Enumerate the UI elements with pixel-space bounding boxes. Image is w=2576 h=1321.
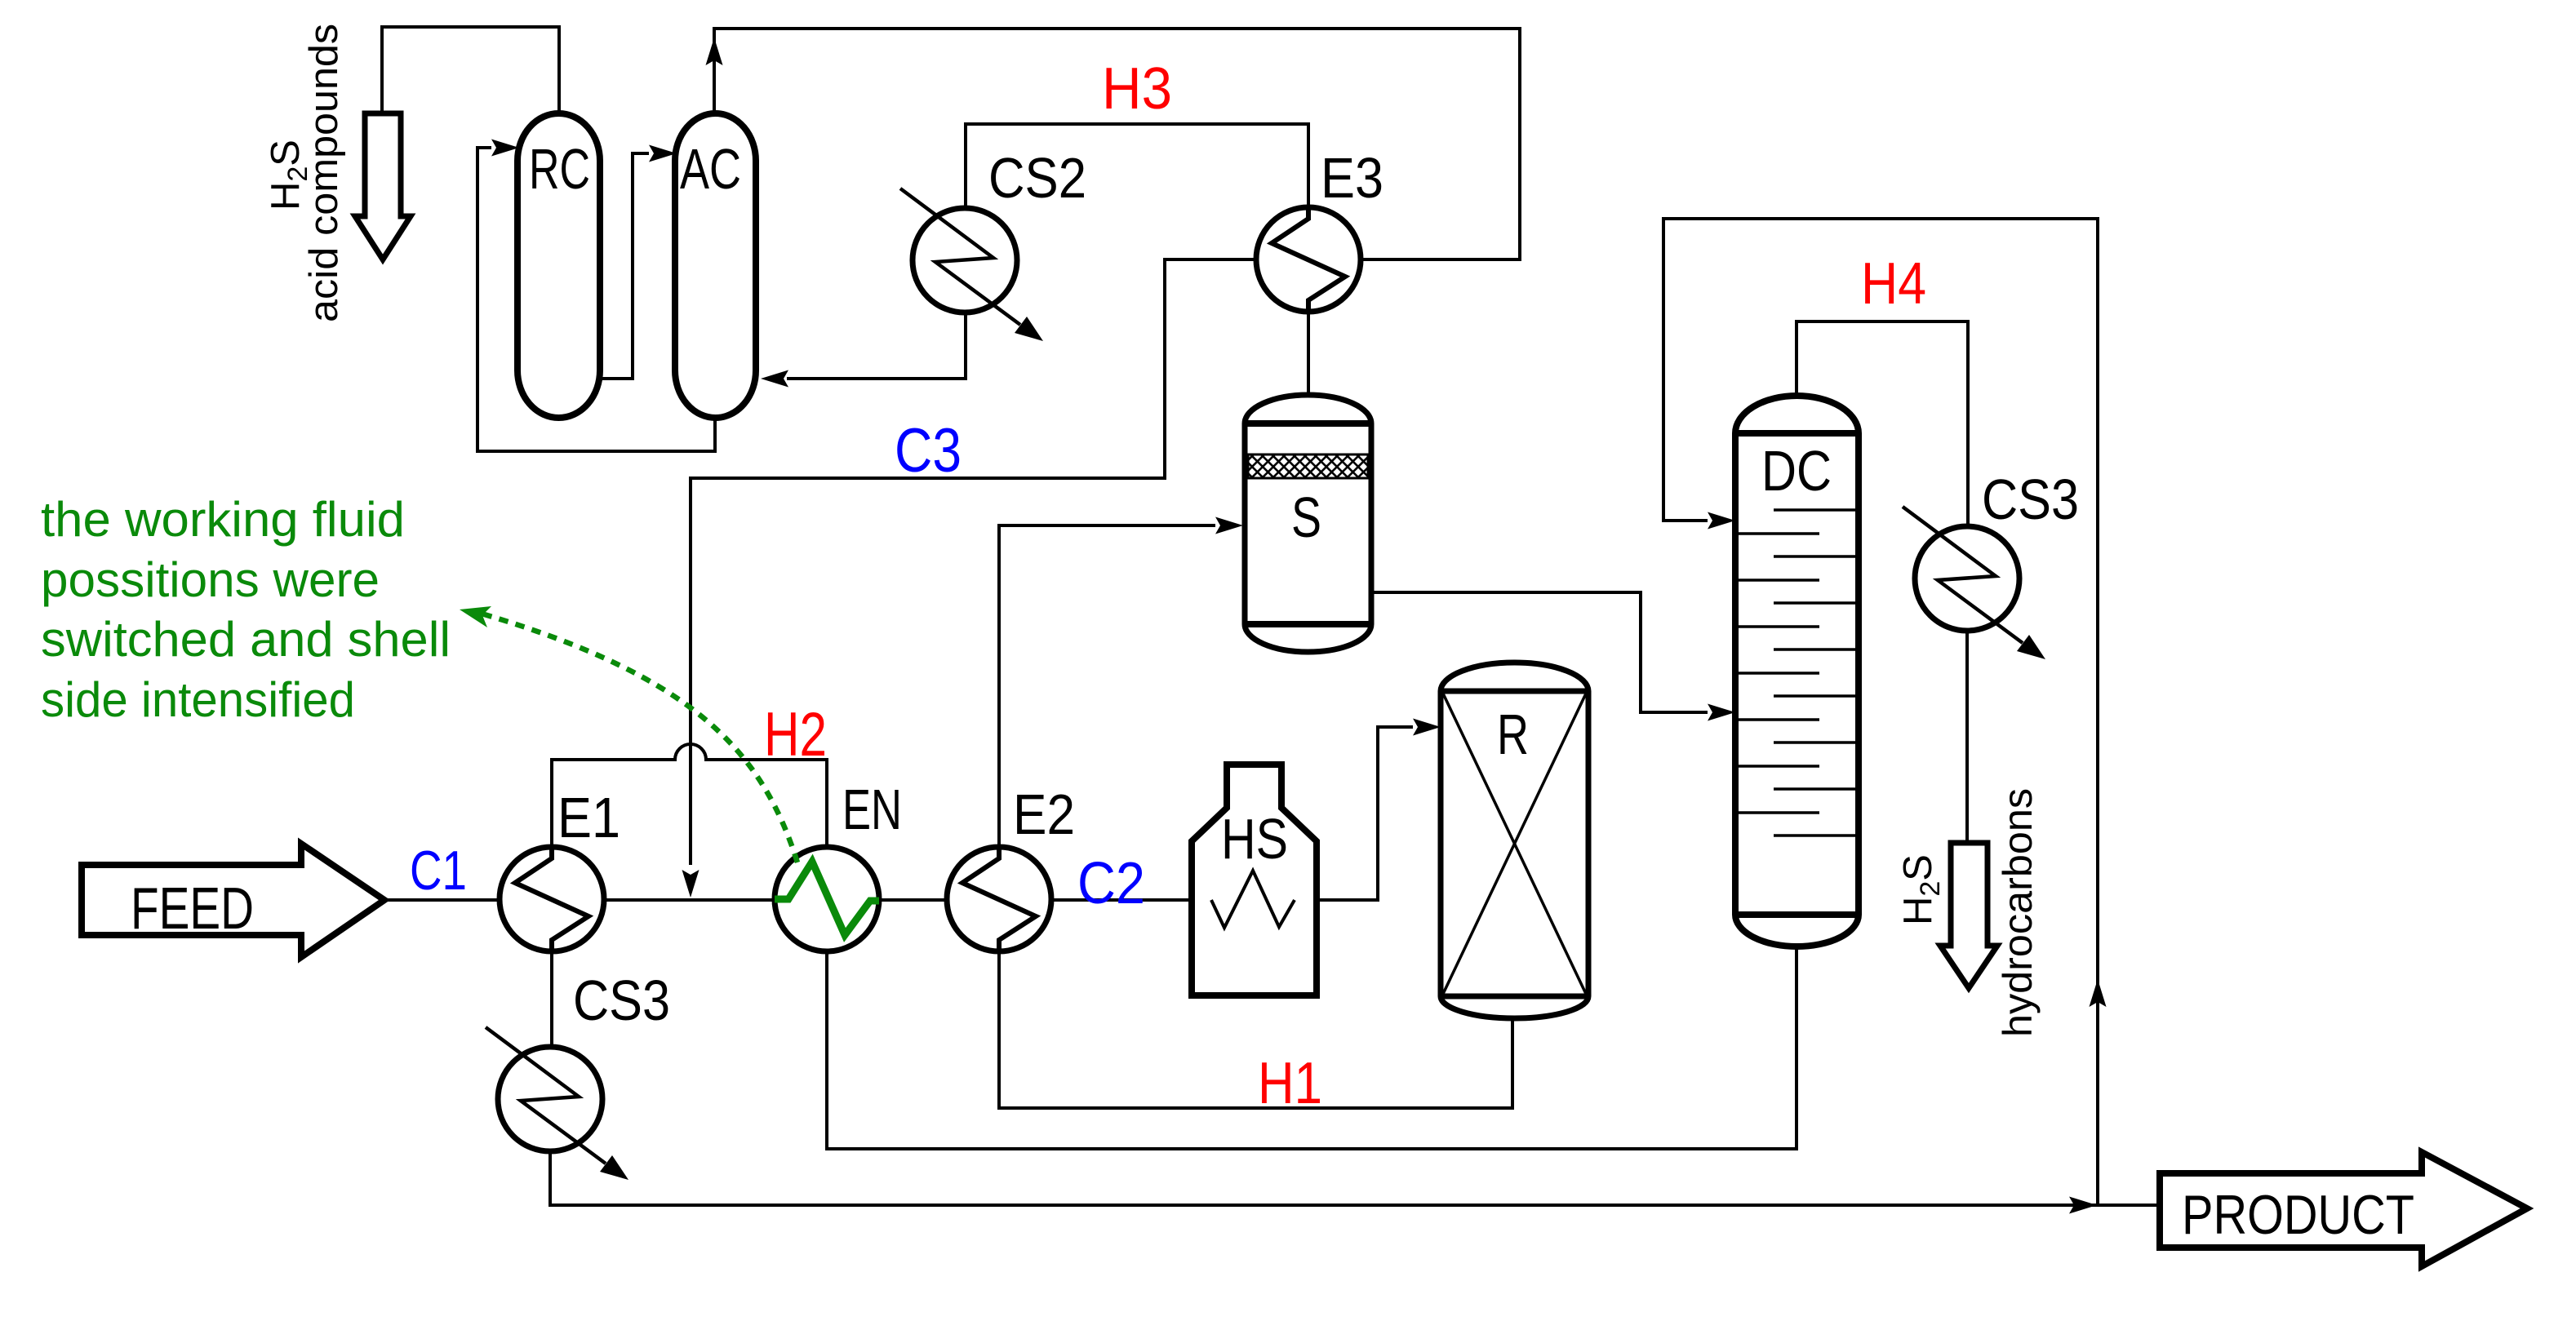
wire C3: E3 left to junction before EN — [691, 259, 1258, 865]
arrowhead into R left — [1413, 719, 1441, 736]
arrowhead into RC top-left — [491, 140, 519, 157]
svg-text:C1: C1 — [410, 840, 467, 902]
wire AC top to E3 right — [714, 29, 1520, 259]
PRODUCT hollow arrow — [2160, 1152, 2527, 1266]
wire AC bottom to RC inlet loop — [477, 148, 715, 451]
heat exchanger EN with green working-fluid zigzag — [775, 847, 879, 951]
svg-text:the working fluid: the working fluid — [41, 492, 405, 547]
arrowhead into DC mid-left — [1708, 704, 1735, 721]
vessel AC absorber column — [675, 113, 756, 418]
svg-text:C2: C2 — [1077, 851, 1145, 916]
wire HS to R inlet — [1295, 727, 1413, 900]
svg-text:acid compounds: acid compounds — [302, 24, 346, 322]
svg-text:possitions were: possitions were — [41, 552, 380, 607]
svg-text:HS: HS — [1221, 807, 1288, 871]
wire E2 top to S inlet — [999, 525, 1215, 849]
wire E3 bottom to S top — [1307, 310, 1310, 397]
svg-text:AC: AC — [680, 137, 741, 201]
wire E1 bottom to CS3 — [550, 951, 553, 1048]
svg-text:CS3: CS3 — [1982, 468, 2079, 531]
wire H1: E2 bottom to R bottom — [999, 951, 1512, 1108]
label H2S right rotated — [1896, 854, 1946, 925]
wire CS3 bottom to H2S outlet arrow — [1965, 629, 1969, 843]
svg-text:S: S — [1291, 485, 1321, 549]
arrowhead down into main line junction — [682, 870, 700, 898]
furnace HS heater — [1192, 765, 1317, 995]
svg-text:R: R — [1497, 703, 1529, 766]
label hydrocarbons rotated — [1995, 788, 2041, 1037]
svg-text:PRODUCT: PRODUCT — [2182, 1184, 2414, 1246]
wire FEED to E1 — [384, 898, 501, 902]
vessel RC recontacting column — [517, 113, 600, 418]
wire CS2 bottom to AC right — [787, 311, 966, 379]
arrowhead into DC upper-left — [1708, 512, 1735, 530]
wire S outlet to DC mid inlet — [1370, 592, 1708, 712]
wire RC outlet to AC inlet — [602, 153, 649, 379]
heat exchanger E2 — [947, 847, 1051, 951]
FEED hollow arrow — [82, 844, 384, 957]
vessel S separator — [1245, 395, 1371, 652]
arrowhead into AC right — [761, 370, 788, 388]
svg-text:E2: E2 — [1013, 782, 1075, 846]
svg-text:hydrocarbons: hydrocarbons — [1995, 788, 2041, 1037]
svg-text:CS3: CS3 — [573, 969, 670, 1032]
svg-text:FEED: FEED — [131, 876, 254, 942]
wire recycle loop product line up over to DC top inlet — [1663, 219, 2098, 1205]
svg-text:DC: DC — [1761, 439, 1832, 503]
svg-text:H2: H2 — [764, 700, 827, 769]
label H2S left rotated — [264, 140, 313, 211]
wire H3 loop CS2 top to E3 top — [966, 124, 1308, 210]
svg-text:CS2: CS2 — [988, 146, 1086, 210]
wire EN bottom to DC bottom — [827, 945, 1797, 1149]
arrowhead up on recycle riser — [2090, 979, 2107, 1007]
svg-text:switched and shell: switched and shell — [41, 612, 451, 667]
cooler CS3 right — [1903, 507, 2045, 659]
arrowhead on product line — [2069, 1197, 2097, 1214]
cooler CS3 left — [486, 1027, 628, 1180]
wire EN to E2 — [877, 898, 948, 902]
svg-text:RC: RC — [529, 137, 590, 201]
arrowhead into AC top-left — [649, 145, 677, 162]
cooler CS2 — [900, 188, 1043, 341]
H2S hydrocarbons outlet hollow arrow — [1940, 843, 1997, 988]
svg-text:side intensified: side intensified — [41, 672, 355, 727]
arrowhead into S left — [1215, 517, 1243, 534]
wire E1 to EN — [602, 898, 776, 902]
svg-text:E1: E1 — [557, 786, 620, 849]
label acid compounds rotated — [302, 24, 346, 322]
green dashed annotation arrow — [460, 606, 797, 862]
wire E2 to HS — [1050, 898, 1211, 902]
acid gas outlet hollow arrow — [355, 113, 411, 259]
vessel R reactor — [1441, 663, 1588, 1018]
wire RC top to acid-gas outlet — [382, 27, 559, 114]
svg-text:E3: E3 — [1321, 146, 1383, 210]
arrowhead up above AC — [706, 38, 723, 65]
green annotation text — [41, 492, 451, 727]
svg-text:EN: EN — [842, 778, 902, 841]
svg-text:C3: C3 — [895, 416, 962, 485]
svg-text:H1: H1 — [1258, 1051, 1322, 1116]
svg-text:H4: H4 — [1861, 251, 1926, 317]
heat exchanger E3 — [1256, 207, 1361, 312]
svg-text:H3: H3 — [1102, 56, 1172, 122]
wire CS3 bottom to PRODUCT line — [550, 1150, 2156, 1205]
wire H2 loop E1 top to EN top with hop — [552, 744, 827, 849]
vessel DC distillation column — [1735, 396, 1859, 946]
heat exchanger E1 — [500, 847, 604, 951]
wire DC top to H4 loop to CS3 — [1797, 321, 1968, 528]
